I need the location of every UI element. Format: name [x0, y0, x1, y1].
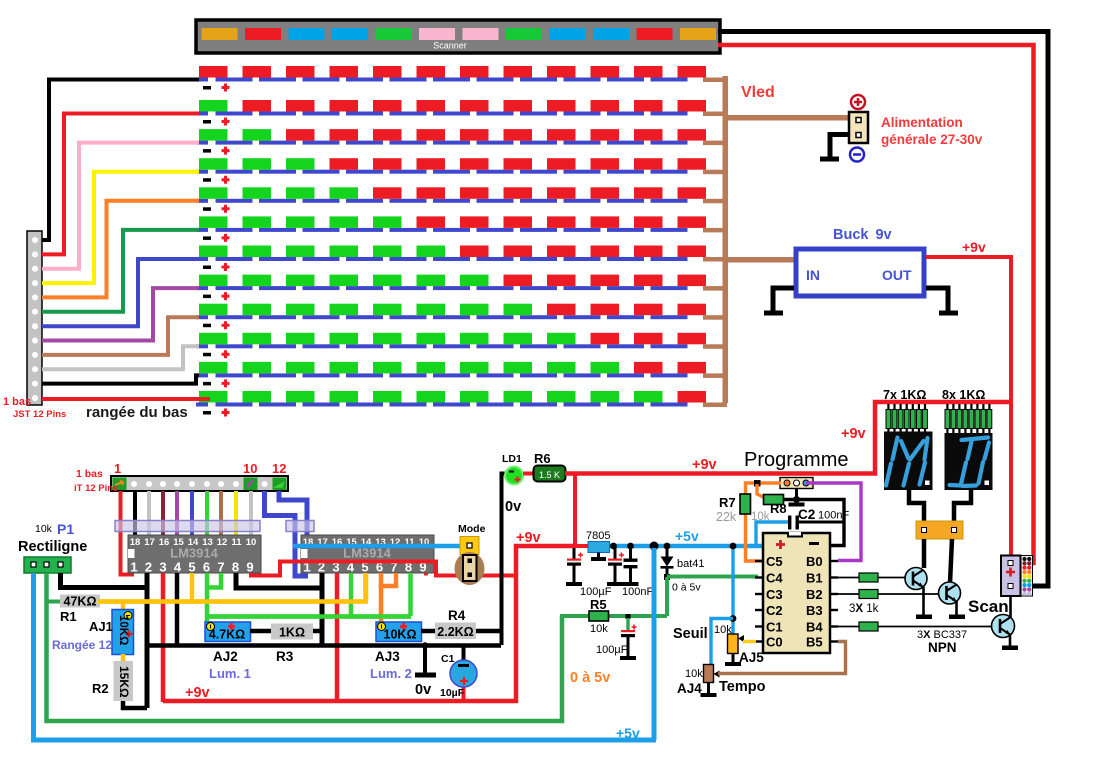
wire row 8 right stub to Vled bus	[703, 286, 727, 291]
pin C3	[755, 593, 763, 595]
svg-text:10k: 10k	[685, 668, 703, 680]
svg-text:générale 27-30v: générale 27-30v	[881, 132, 983, 147]
svg-text:B2: B2	[806, 587, 823, 602]
node junction bat41-green	[664, 574, 670, 580]
wire row 11 right stub to Vled bus	[703, 373, 727, 378]
wire JST pin 4 to LED row 4	[42, 172, 199, 283]
wire jumper pin2 to transistor Q2	[950, 539, 952, 583]
connector alimentation	[849, 112, 868, 143]
LED row 7	[196, 246, 706, 272]
wire connector pin3 to LM3914-1 top pin 17	[147, 491, 151, 536]
wire scanner black to scan connector	[718, 32, 1048, 587]
capacitor C input 100uF	[566, 548, 583, 586]
svg-text:10k: 10k	[35, 523, 53, 535]
svg-text:7805: 7805	[586, 530, 610, 542]
svg-text:+9v: +9v	[841, 426, 866, 442]
svg-text:C5: C5	[766, 554, 783, 569]
svg-text:AJ2: AJ2	[213, 649, 238, 664]
connector P1 rectiligne	[24, 557, 71, 573]
ground (buck left)	[764, 288, 794, 316]
svg-text:B5: B5	[806, 635, 823, 650]
wire connector pin9 to LM3914-1 top pin 11	[234, 491, 238, 536]
capacitor C2 100nF	[788, 516, 844, 530]
pin B5	[830, 640, 838, 642]
trimmer AJ5	[728, 634, 745, 654]
svg-text:B4: B4	[806, 620, 823, 635]
wire cyan mode line	[293, 544, 467, 549]
svg-text:R4: R4	[448, 608, 466, 623]
node junctions on +5v rail	[610, 543, 617, 550]
wire LM3914-2 pin5 yellow stub	[364, 573, 369, 601]
wire 0v vertical x147	[145, 573, 150, 708]
LED row 6	[196, 216, 706, 242]
wire cyan +5v to C2	[756, 522, 788, 546]
svg-text:OUT: OUT	[882, 267, 912, 283]
svg-text:bat41: bat41	[677, 558, 705, 570]
connector JST 12 pins (bottom, above LM3914)	[111, 476, 288, 491]
svg-text:100µF: 100µF	[596, 644, 628, 656]
wire scanner red to scan connector	[718, 45, 1034, 563]
svg-text:B1: B1	[806, 571, 823, 586]
wire brown B5 to AJ4	[718, 642, 846, 674]
svg-text:Mode: Mode	[458, 523, 486, 535]
LED row 4	[196, 158, 706, 184]
pin C4	[755, 576, 763, 578]
LED row 3	[196, 129, 706, 155]
wire display1 to mode jumper2	[909, 490, 924, 521]
resistor R2 15K	[114, 661, 134, 701]
wire JST pin 12 to LED row 12	[42, 397, 210, 401]
wire JST pin 11 to LED row 11	[42, 375, 199, 383]
wire +5v cyan vertical to bottom rail	[652, 548, 657, 740]
svg-text:Alimentation: Alimentation	[881, 115, 963, 130]
svg-text:C3: C3	[766, 587, 783, 602]
svg-text:B3: B3	[806, 603, 823, 618]
svg-text:C4: C4	[766, 571, 783, 586]
svg-text:0 à 5v: 0 à 5v	[672, 582, 701, 594]
resistor R4 2.2K	[435, 623, 476, 640]
svg-text:R5: R5	[590, 597, 607, 612]
wire yellow rail overlay	[98, 573, 366, 602]
wire Q1 emitter to ground	[916, 587, 932, 619]
pin C5	[755, 560, 763, 562]
ground (buck right)	[926, 288, 958, 316]
wire LM3914-2 pin9 red stub	[424, 573, 428, 576]
svg-text:R7: R7	[719, 495, 736, 510]
wire orange net pins 6-7 bridge to AJ3	[381, 573, 396, 622]
svg-text:B0: B0	[806, 554, 823, 569]
pin C1	[755, 625, 763, 627]
svg-text:100nF: 100nF	[818, 510, 849, 522]
svg-text:C1: C1	[441, 653, 455, 665]
wire Q2 emitter to ground	[949, 601, 965, 619]
svg-text:1.5 K: 1.5 K	[539, 470, 560, 480]
wire green net pins 6-7 bridge	[207, 573, 221, 588]
wire Q3 emitter to ground	[1002, 635, 1018, 650]
wire JST pin 6 to LED row 6	[42, 230, 199, 312]
wire R8 right to PIC minus via C2	[783, 500, 844, 546]
transistor Q2 BC337	[939, 582, 961, 604]
svg-text:AJ4: AJ4	[677, 681, 702, 696]
svg-text:Rangée 12: Rangée 12	[52, 638, 112, 652]
wire LM3914-1 pin9 red to mode connector	[251, 562, 515, 576]
capacitor C1 10uF	[450, 645, 477, 701]
svg-text:2.2KΩ: 2.2KΩ	[437, 625, 473, 639]
pin B4	[830, 625, 838, 627]
wire JST pin 8 to LED row 8	[42, 288, 199, 340]
wire LM3914-1 pin4 black to 0v line	[175, 573, 180, 645]
svg-text:+5v: +5v	[675, 528, 699, 544]
svg-text:+5v: +5v	[616, 725, 640, 741]
resistor R5 10k	[589, 611, 609, 621]
svg-text:3X 1k: 3X 1k	[849, 603, 879, 615]
svg-text:iT 12 Pins: iT 12 Pins	[74, 483, 118, 494]
wire green net vertical pin6 to AJ2	[205, 573, 210, 622]
wire connector pin11 blue to LM3914-2 pin1	[265, 491, 309, 576]
svg-text:Tempo: Tempo	[719, 679, 766, 695]
svg-text:Scan: Scan	[968, 597, 1009, 616]
pin C0	[755, 640, 763, 642]
svg-text:7x 1KΩ: 7x 1KΩ	[883, 388, 926, 402]
svg-text:Seuil: Seuil	[673, 626, 708, 642]
resistor R6 1.5K	[534, 466, 566, 482]
svg-text:10KΩ: 10KΩ	[117, 615, 129, 645]
wire LM3914-2 pin8 green	[408, 573, 413, 616]
wire AJ3 to R4	[421, 629, 436, 634]
wire row 1 right stub to Vled bus	[703, 78, 727, 83]
ground (AJ4)	[701, 683, 717, 698]
wire connector pin7 to LM3914-1 top pin 13	[205, 491, 209, 536]
wire LM3914-2 pin6 orange stub	[379, 573, 384, 588]
resistor R1 47K	[60, 595, 100, 609]
transistor Q3 scan BC337	[992, 615, 1015, 638]
wire green 0-5v to PIC C4	[667, 575, 758, 579]
wire green net horizontal overlay	[207, 614, 411, 619]
svg-text:AJ1: AJ1	[89, 619, 113, 634]
wire JST pin 1 to LED row 1	[42, 80, 199, 241]
svg-text:R6: R6	[534, 451, 551, 466]
wire green spur to R1	[46, 600, 62, 604]
wire connector pin2 to LM3914-1 top pin 18	[133, 491, 137, 536]
pin B2	[830, 593, 838, 595]
svg-text:JST 12 Pins: JST 12 Pins	[13, 409, 66, 420]
svg-text:5: 5	[188, 560, 195, 575]
wire JST pin 7 to LED row 7	[42, 259, 199, 326]
wire LM3914-2 pin2 stub	[320, 573, 325, 590]
buck converter box	[796, 249, 924, 296]
wire LD1 black 0v vertical	[502, 474, 507, 646]
wire Vled brown bus vertical	[723, 76, 729, 403]
wire header middle pin to ground	[789, 489, 805, 507]
wire row 9 right stub to Vled bus	[703, 315, 727, 320]
wire row 4 right stub to Vled bus	[703, 170, 727, 175]
svg-text:0 à 5v: 0 à 5v	[570, 670, 610, 686]
pin B0	[830, 560, 838, 562]
capacitor 100uF (R5 node)	[620, 614, 637, 660]
svg-text:+9v: +9v	[185, 685, 210, 701]
wire P1 pin2 green to bottom rail	[47, 573, 563, 721]
wire orange node to R8	[757, 484, 765, 498]
svg-text:22k: 22k	[716, 510, 737, 524]
wire JST pin 2 to LED row 2	[42, 114, 199, 255]
svg-text:10: 10	[246, 537, 257, 548]
resistor B2 1k	[838, 590, 939, 599]
wire yellow AJ5 to C0	[743, 640, 756, 643]
display 7-segment M	[884, 432, 933, 491]
wire JST pin 3 to LED row 3	[42, 143, 199, 269]
svg-text:C2: C2	[798, 507, 815, 522]
wire connector pin8 to LM3914-1 top pin 12	[219, 491, 223, 536]
resistor B4 1k	[838, 622, 992, 631]
svg-text:11: 11	[231, 537, 242, 548]
display 7-segment D	[945, 433, 993, 490]
LED row 2	[196, 100, 706, 126]
svg-text:C0: C0	[766, 635, 783, 650]
diode bat41	[661, 548, 674, 577]
svg-text:1 bas: 1 bas	[76, 468, 103, 480]
svg-text:12: 12	[217, 537, 228, 548]
wire row 6 right stub to Vled bus	[703, 228, 727, 233]
svg-text:+9v: +9v	[692, 457, 717, 473]
svg-text:4: 4	[174, 560, 182, 575]
svg-text:100nF: 100nF	[622, 586, 653, 598]
wire red junction to 7805 input	[575, 544, 589, 548]
svg-text:16: 16	[159, 537, 170, 548]
svg-text:1 bas: 1 bas	[3, 396, 31, 408]
LED row 10	[196, 333, 706, 359]
wire row 10 right stub to Vled bus	[703, 344, 727, 349]
svg-text:1: 1	[114, 461, 121, 476]
svg-text:10µF: 10µF	[440, 687, 465, 699]
LED row 9	[196, 304, 706, 330]
wire row 2 right stub to Vled bus	[703, 112, 727, 117]
svg-text:18: 18	[130, 537, 141, 548]
jumper mode (brown)	[455, 552, 485, 585]
svg-text:Rectiligne: Rectiligne	[18, 539, 87, 555]
op-amp/IC U2 LM3914	[301, 535, 434, 575]
wire +5v rail	[610, 544, 763, 549]
svg-text:Buck9v: Buck9v	[833, 227, 892, 243]
svg-text:10KΩ: 10KΩ	[384, 628, 417, 642]
connector scan jumper (orange)	[916, 521, 963, 539]
wire JST pin 5 to LED row 5	[42, 201, 199, 298]
wire +9v bottom rail	[163, 546, 575, 701]
resistor B1 1k	[838, 573, 906, 582]
node junction orange/R8	[754, 480, 761, 487]
connector mode header	[460, 537, 479, 555]
wire JST pin 10 to LED row 10	[42, 346, 199, 369]
wire connector pin4 to LM3914-1 top pin 16	[161, 491, 165, 536]
wire LM3914-2 pin3 red to +9v rail	[335, 573, 340, 702]
ground (0v below AJ3)	[415, 642, 436, 677]
wire Q3 collector from scan connector	[1009, 596, 1012, 618]
svg-text:1KΩ: 1KΩ	[279, 626, 305, 640]
capacitor C output 100uF	[607, 548, 624, 586]
wire green bat41 down to R5	[665, 577, 669, 616]
svg-text:1: 1	[130, 560, 137, 575]
wire AJ1 top stub	[121, 601, 126, 610]
wire JST pin 9 to LED row 9	[42, 317, 199, 355]
wire display2 to mode jumper2	[954, 490, 971, 521]
wire P1 pin3 black to 0v net	[61, 573, 148, 588]
svg-text:R2: R2	[92, 681, 109, 696]
wire green net horizontal	[207, 614, 411, 619]
connector programming header	[780, 478, 813, 489]
svg-text:47KΩ: 47KΩ	[64, 595, 97, 609]
svg-text:0v: 0v	[505, 499, 521, 515]
svg-text:0v: 0v	[415, 682, 431, 698]
svg-text:C2: C2	[766, 603, 783, 618]
resistor R3 1K	[271, 624, 313, 640]
LED row 5	[196, 187, 706, 213]
svg-text:NPN: NPN	[928, 640, 957, 655]
ground (alimentation)	[820, 135, 849, 162]
wire connector pin12 blue to LM3914-2 pin18	[279, 491, 307, 536]
svg-text:Lum. 2: Lum. 2	[370, 666, 412, 681]
pin C2	[755, 609, 763, 611]
resistor network 8x1K	[945, 404, 992, 434]
svg-text:Programme: Programme	[744, 449, 848, 471]
wire green R5 left/right	[560, 614, 667, 618]
wire 0v line	[147, 643, 501, 648]
wire AJ1 to R2	[121, 654, 126, 662]
svg-text:8: 8	[232, 560, 239, 575]
transistor Q1 BC337	[905, 568, 927, 590]
wire AJ2 to R3	[250, 629, 272, 634]
svg-text:LD1: LD1	[502, 453, 522, 465]
svg-text:Vled: Vled	[741, 84, 775, 101]
svg-text:3: 3	[159, 560, 166, 575]
wire row 7 right stub to Vled bus	[703, 257, 727, 262]
svg-text:4.7KΩ: 4.7KΩ	[209, 628, 245, 642]
wire buck OUT +9v	[926, 257, 1011, 556]
connector scan ribbon dots	[1021, 556, 1033, 597]
connector JST 12 pins (left)	[27, 231, 42, 405]
svg-text:AJ5: AJ5	[739, 650, 764, 665]
capacitor 100nF ceramic	[623, 548, 639, 586]
svg-text:2: 2	[145, 560, 152, 575]
resistor R8 10k	[764, 495, 784, 505]
ribbon band 2 (translucent)	[286, 521, 314, 532]
wire row 5 right stub to Vled bus	[703, 199, 727, 204]
wire jumper pin1 to transistor Q1	[922, 539, 927, 568]
ground (AJ5)	[725, 654, 741, 667]
pin B1	[830, 576, 838, 578]
LED row 1	[196, 66, 706, 92]
wire LM3914-1 pin8 to LM3914-2 pin2 black	[236, 573, 322, 645]
svg-text:R3: R3	[276, 649, 294, 664]
wire row 3 right stub to Vled bus	[703, 141, 727, 146]
wire cyan branch to AJ5/AJ4	[731, 546, 734, 634]
svg-text:10: 10	[243, 461, 257, 476]
svg-text:P1: P1	[57, 521, 74, 537]
wire +9v top rail (R6 to programme)	[565, 402, 1011, 474]
op-amp/IC U1 LM3914	[128, 535, 261, 575]
power symbol plus (alimentation)	[851, 95, 865, 109]
LED row 11	[196, 362, 706, 388]
LED row 12	[196, 391, 706, 417]
wire purple header to B0	[806, 483, 861, 561]
svg-text:+9v: +9v	[962, 239, 986, 255]
pin B3	[830, 609, 838, 611]
wire LM3914-1 pin2 black	[145, 573, 150, 590]
wire orange header to R7 to C5	[746, 483, 782, 561]
svg-text:12: 12	[272, 461, 286, 476]
svg-text:10k: 10k	[590, 623, 608, 635]
wire +9v drop to 7805	[573, 474, 577, 547]
svg-text:9: 9	[246, 560, 253, 575]
resistor R7 22k	[740, 494, 751, 514]
trimmer AJ3 10K	[376, 622, 422, 642]
wire P1 pin1 cyan to +5v rail	[34, 573, 657, 740]
trimmer AJ2 4.7K	[205, 622, 251, 642]
resistor network 7x1K	[886, 404, 927, 432]
wire connector pin6 to LM3914-1 top pin 14	[190, 491, 194, 536]
svg-text:LM3914: LM3914	[170, 546, 218, 561]
microcontroller PIC (programme)	[763, 532, 830, 653]
wire R3 right to black vertical	[313, 629, 324, 634]
connector scan (purple)	[1001, 556, 1021, 597]
wire LM3914-2 pin4 green	[349, 573, 354, 616]
svg-text:7: 7	[217, 560, 224, 575]
regulator 7805	[588, 542, 610, 562]
wire connector pin10 to LM3914-1 top pin 10	[249, 491, 253, 536]
svg-text:R8: R8	[770, 501, 787, 516]
svg-text:8x 1KΩ: 8x 1KΩ	[942, 388, 985, 402]
scanner bar	[196, 20, 720, 53]
wire yellow rail (R1 to LM3914 pins 5)	[98, 573, 366, 602]
power symbol minus (alimentation)	[850, 148, 864, 162]
svg-text:R1: R1	[60, 609, 77, 624]
svg-text:IN: IN	[806, 267, 820, 283]
wire Vled bus to buck IN	[723, 257, 795, 263]
svg-text:Scanner: Scanner	[433, 41, 467, 51]
wire connector pin5 to LM3914-1 top pin 15	[175, 491, 179, 536]
wire connector pin1 red to LM3914-1 pin1	[121, 491, 135, 575]
svg-text:6: 6	[203, 560, 210, 575]
svg-text:Lum. 1: Lum. 1	[209, 666, 251, 681]
wire LM3914-1 pin3 red to +9v rail	[161, 573, 166, 702]
wire R2 bottom to 0v vertical	[123, 701, 147, 708]
LED row 8	[196, 275, 706, 301]
svg-text:+9v: +9v	[516, 530, 541, 546]
wire LM3914-1 pin5 to yellow rail	[190, 573, 195, 601]
trimmer AJ1 10K	[112, 610, 134, 655]
ribbon band 1 (translucent)	[115, 521, 260, 532]
svg-text:15KΩ: 15KΩ	[117, 666, 131, 698]
LED LD1	[504, 466, 524, 486]
wire R4 right to LD1 vertical	[476, 629, 503, 634]
wire row 12 right stub to Vled bus	[703, 403, 727, 408]
wire Vled to alimentation connector	[723, 115, 850, 121]
svg-text:17: 17	[144, 537, 155, 548]
svg-text:AJ3: AJ3	[375, 649, 400, 664]
trimmer AJ4	[704, 665, 720, 683]
wire LD1 to R6	[523, 472, 535, 476]
svg-text:C1: C1	[766, 620, 783, 635]
svg-text:rangée du bas: rangée du bas	[86, 404, 188, 421]
